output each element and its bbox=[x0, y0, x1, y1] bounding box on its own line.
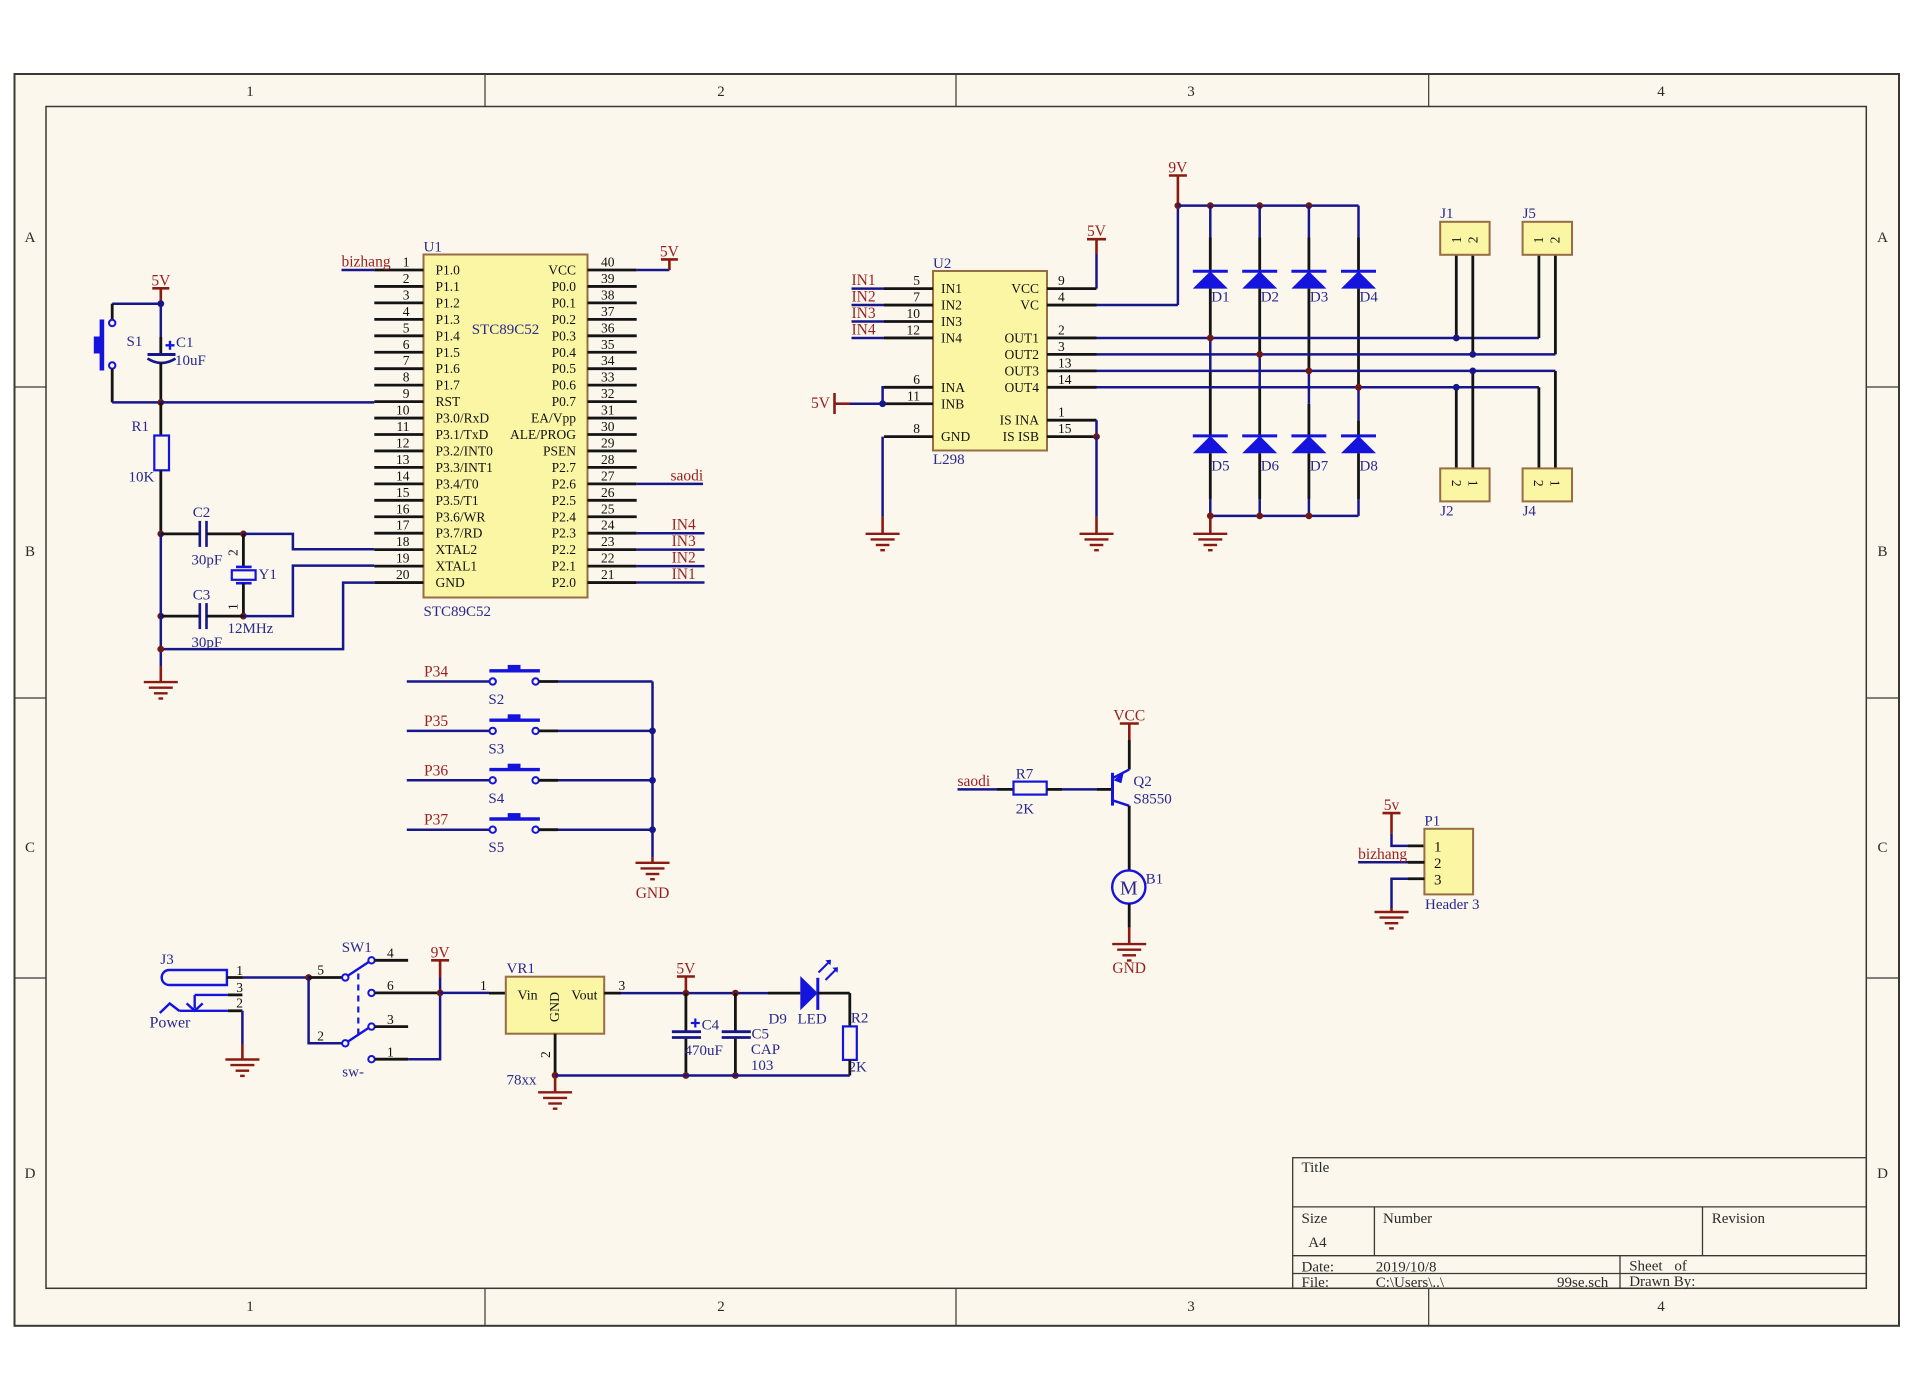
net label saodi at U1 pin 27 bbox=[637, 483, 703, 486]
wire J1 pin1 drop bbox=[1455, 255, 1458, 338]
svg-text:P34: P34 bbox=[424, 664, 448, 681]
svg-text:9: 9 bbox=[403, 386, 410, 401]
node: C4 junction bbox=[683, 990, 690, 997]
svg-text:STC89C52: STC89C52 bbox=[472, 322, 540, 338]
svg-text:10: 10 bbox=[907, 306, 921, 321]
push button S2 bbox=[490, 678, 496, 684]
wire junction to INA bbox=[883, 387, 884, 403]
U1 pin 17 (P3.7/RD) bbox=[374, 532, 423, 535]
svg-text:2: 2 bbox=[1531, 480, 1546, 487]
svg-text:P0.7: P0.7 bbox=[552, 394, 577, 409]
svg-text:9: 9 bbox=[1058, 273, 1065, 288]
svg-text:26: 26 bbox=[601, 485, 615, 500]
node: bottom rail junction bbox=[1256, 513, 1263, 520]
title block bbox=[1293, 1158, 1867, 1289]
svg-text:1: 1 bbox=[1449, 237, 1464, 244]
svg-text:99se.sch: 99se.sch bbox=[1557, 1275, 1609, 1291]
svg-text:2: 2 bbox=[538, 1051, 553, 1058]
wire J5 pin 2 drop bbox=[1554, 255, 1557, 354]
svg-text:C: C bbox=[25, 840, 35, 856]
svg-text:P1.6: P1.6 bbox=[436, 361, 461, 376]
svg-text:A: A bbox=[1877, 230, 1888, 246]
svg-text:14: 14 bbox=[396, 468, 410, 483]
node: C5 junction bbox=[732, 990, 739, 997]
node: J1.1 junction bbox=[1453, 335, 1460, 342]
ground below U2 IS pins bbox=[1095, 517, 1098, 534]
wire OUT1 to J1/J5 bbox=[1097, 337, 1539, 340]
wire J3 pin1 to SW1 bbox=[243, 976, 309, 979]
U1 pin 35 (P0.4) bbox=[588, 351, 637, 354]
svg-text:R2: R2 bbox=[851, 1011, 869, 1027]
svg-text:5V: 5V bbox=[1087, 223, 1107, 240]
svg-text:Y1: Y1 bbox=[259, 567, 277, 583]
svg-text:P0.2: P0.2 bbox=[552, 312, 576, 327]
U1 pin 39 (P0.0) bbox=[588, 285, 637, 288]
wire S5 to GND rail bbox=[539, 828, 558, 831]
svg-text:1: 1 bbox=[1531, 237, 1546, 244]
svg-text:5V: 5V bbox=[660, 243, 680, 260]
U1 pin 8 (P1.7) bbox=[374, 384, 423, 387]
wire bottom return rail bbox=[555, 1074, 850, 1077]
svg-text:OUT3: OUT3 bbox=[1005, 363, 1040, 378]
wire U2 IS INA loop bbox=[1095, 420, 1098, 436]
resistor R1 10K bbox=[159, 402, 162, 435]
U2 pin 6 (INA) bbox=[884, 386, 933, 389]
svg-text:Sheet: Sheet bbox=[1629, 1259, 1663, 1275]
net labels IN4-IN1 at U1 pins 24-21 bbox=[637, 532, 705, 535]
svg-text:4: 4 bbox=[387, 946, 394, 961]
LED D9 bbox=[768, 992, 800, 995]
U2 pin 15 (IS ISB) bbox=[1047, 435, 1097, 438]
op-amp U1 body (STC89C52) bbox=[424, 255, 588, 598]
svg-text:C1: C1 bbox=[176, 335, 194, 351]
node: S5 rail junction bbox=[649, 826, 656, 833]
svg-text:P37: P37 bbox=[424, 812, 448, 829]
svg-text:D6: D6 bbox=[1261, 459, 1280, 475]
svg-text:GND: GND bbox=[436, 575, 465, 590]
svg-text:30: 30 bbox=[601, 419, 615, 434]
node: bottom rail junction bbox=[1207, 513, 1214, 520]
svg-text:A4: A4 bbox=[1308, 1235, 1327, 1251]
power 5V at U2 VCC pin 9 bbox=[1087, 238, 1106, 241]
svg-text:R1: R1 bbox=[132, 419, 150, 435]
U1 pin 2 (P1.1) bbox=[374, 285, 423, 288]
power 5V above C4 bbox=[677, 975, 695, 978]
svg-text:P0.4: P0.4 bbox=[552, 345, 577, 360]
svg-text:P2.3: P2.3 bbox=[552, 526, 577, 541]
svg-text:Date:: Date: bbox=[1302, 1260, 1334, 1276]
J3 pin 3 contact bbox=[195, 994, 228, 996]
svg-text:19: 19 bbox=[396, 551, 410, 566]
node: Y1 bottom junction bbox=[240, 613, 247, 620]
svg-text:LED: LED bbox=[798, 1012, 827, 1028]
svg-text:Revision: Revision bbox=[1712, 1211, 1766, 1227]
U2 pin 5 (IN1) bbox=[884, 287, 933, 290]
svg-text:P0.6: P0.6 bbox=[552, 378, 577, 393]
U1 pin 20 (GND) bbox=[374, 581, 423, 584]
ground below C3 bbox=[160, 667, 163, 683]
net label saodi wire to R7 bbox=[958, 788, 998, 791]
wire RST to U1 pin 9 bbox=[161, 401, 374, 404]
svg-text:D9: D9 bbox=[769, 1012, 787, 1028]
wire J3 pin2 to ground bbox=[241, 1011, 244, 1044]
diode D4 bbox=[1357, 206, 1360, 238]
wire OUT2 to J1/J5 bbox=[1097, 353, 1556, 356]
svg-text:28: 28 bbox=[601, 452, 615, 467]
svg-text:1: 1 bbox=[1465, 480, 1480, 487]
svg-text:4: 4 bbox=[1058, 290, 1065, 305]
svg-text:1: 1 bbox=[246, 1299, 254, 1315]
svg-text:15: 15 bbox=[1058, 421, 1072, 436]
capacitor C5 103 bbox=[734, 993, 737, 1030]
svg-text:10: 10 bbox=[396, 403, 410, 418]
svg-text:33: 33 bbox=[601, 370, 615, 385]
U1 pin 27 (P2.6) bbox=[588, 482, 637, 485]
U1 pin 12 (P3.2/INT0) bbox=[374, 450, 423, 453]
svg-text:IN2: IN2 bbox=[672, 550, 696, 567]
svg-text:D7: D7 bbox=[1310, 459, 1329, 475]
U1 pin 1 (P1.0) bbox=[374, 269, 423, 272]
svg-text:38: 38 bbox=[601, 287, 615, 302]
wire IS junction to ground bbox=[1095, 437, 1098, 517]
svg-text:29: 29 bbox=[601, 435, 615, 450]
U1 pin 4 (P1.3) bbox=[374, 318, 423, 321]
svg-text:C5: C5 bbox=[752, 1027, 770, 1043]
U2 pin 13 (OUT3) bbox=[1047, 369, 1097, 372]
J3 tip switch chevron bbox=[160, 1004, 180, 1014]
wire S2 to GND rail bbox=[539, 680, 558, 683]
node: D2/OUT2 junction bbox=[1256, 351, 1263, 358]
svg-text:27: 27 bbox=[601, 468, 615, 483]
ground below buttons bbox=[651, 857, 654, 863]
diode D3 bbox=[1308, 206, 1311, 238]
svg-text:22: 22 bbox=[601, 551, 615, 566]
U1 pin 26 (P2.5) bbox=[588, 499, 637, 502]
svg-text:S5: S5 bbox=[488, 840, 504, 856]
svg-text:2K: 2K bbox=[1016, 802, 1035, 818]
svg-text:bizhang: bizhang bbox=[342, 254, 391, 271]
node: S4 rail junction bbox=[649, 777, 656, 784]
svg-text:CAP: CAP bbox=[751, 1042, 780, 1058]
svg-text:32: 32 bbox=[601, 386, 615, 401]
svg-text:2: 2 bbox=[717, 1299, 725, 1315]
net label P36 wire bbox=[407, 779, 490, 782]
svg-text:saodi: saodi bbox=[958, 773, 991, 790]
U1 pin 32 (P0.7) bbox=[588, 400, 637, 403]
wire J5 pin 1 drop bbox=[1538, 255, 1541, 338]
capacitor C1 bbox=[160, 304, 163, 337]
U1 pin 29 (PSEN) bbox=[588, 450, 637, 453]
svg-text:37: 37 bbox=[601, 304, 615, 319]
svg-text:2: 2 bbox=[226, 549, 241, 556]
node: IS junction bbox=[1093, 433, 1100, 440]
VR1 pin 3 Vout bbox=[604, 992, 621, 995]
ground below U2 GND bbox=[881, 517, 884, 534]
power 5V at U1 pin 40 bbox=[637, 269, 670, 272]
svg-text:12: 12 bbox=[396, 435, 410, 450]
svg-text:9V: 9V bbox=[1168, 160, 1188, 177]
U1 pin 6 (P1.5) bbox=[374, 351, 423, 354]
wire 5V junction to S1 top bbox=[112, 302, 161, 305]
diode D6 bbox=[1258, 354, 1261, 387]
svg-text:GND: GND bbox=[548, 992, 563, 1022]
push button S3 bbox=[490, 728, 496, 734]
U2 pin 10 (IN3) bbox=[884, 320, 933, 323]
svg-text:A: A bbox=[25, 230, 36, 246]
wire SW1 pin1 to 9V riser bbox=[408, 993, 440, 1059]
svg-text:J1: J1 bbox=[1440, 206, 1453, 222]
power 9V above SW1 bbox=[431, 959, 449, 962]
U2 pin 4 (VC) bbox=[1047, 304, 1097, 307]
wire J4 pin 2 rise bbox=[1538, 387, 1541, 468]
svg-text:5: 5 bbox=[913, 273, 920, 288]
wire J2 pin2 rise bbox=[1455, 387, 1458, 468]
svg-text:12MHz: 12MHz bbox=[228, 621, 274, 637]
U1 pin 10 (P3.0/RxD) bbox=[374, 417, 423, 420]
svg-text:1: 1 bbox=[1434, 839, 1442, 855]
svg-text:1: 1 bbox=[403, 255, 410, 270]
svg-text:10K: 10K bbox=[129, 470, 155, 486]
wire Q2 collector to motor bbox=[1128, 806, 1131, 871]
wire LED to R2 bbox=[818, 992, 850, 995]
node: C4 bottom junction bbox=[683, 1072, 690, 1079]
svg-text:S3: S3 bbox=[488, 741, 504, 757]
connector P1 body bbox=[1424, 829, 1473, 895]
net label bizhang at U1 pin 1 bbox=[342, 269, 375, 272]
wire Y1 top to XTAL2 (pin 18) bbox=[243, 534, 374, 549]
svg-text:2K: 2K bbox=[849, 1060, 868, 1076]
svg-text:File:: File: bbox=[1302, 1275, 1330, 1291]
svg-text:GND: GND bbox=[1112, 960, 1146, 977]
svg-text:1: 1 bbox=[480, 978, 487, 993]
svg-text:2: 2 bbox=[1434, 856, 1442, 872]
svg-text:9V: 9V bbox=[431, 944, 451, 961]
wire S1 bottom to RST node bbox=[111, 369, 114, 403]
connector J5 bbox=[1523, 222, 1572, 255]
svg-text:P3.2/INT0: P3.2/INT0 bbox=[436, 443, 494, 458]
svg-text:D: D bbox=[1877, 1166, 1888, 1182]
ground below diode rail bbox=[1209, 516, 1212, 534]
svg-text:P1: P1 bbox=[1424, 814, 1440, 830]
svg-text:P0.5: P0.5 bbox=[552, 361, 577, 376]
svg-text:7: 7 bbox=[913, 290, 920, 305]
connector J1 bbox=[1440, 222, 1489, 255]
wire J4 pin 1 rise bbox=[1554, 371, 1557, 469]
svg-text:bizhang: bizhang bbox=[1358, 846, 1407, 863]
U1 pin 40 (VCC) bbox=[588, 269, 637, 272]
diode D2 bbox=[1258, 206, 1261, 238]
svg-text:Header 3: Header 3 bbox=[1425, 897, 1480, 913]
node: J1.2 junction bbox=[1469, 351, 1476, 358]
svg-text:P2.1: P2.1 bbox=[552, 559, 576, 574]
svg-text:12: 12 bbox=[907, 322, 921, 337]
wire S4 to GND rail bbox=[539, 779, 558, 782]
svg-text:STC89C52: STC89C52 bbox=[424, 604, 492, 620]
svg-text:IN3: IN3 bbox=[852, 305, 876, 322]
svg-text:of: of bbox=[1674, 1259, 1687, 1275]
node: 9V/SW1 junction bbox=[437, 990, 444, 997]
svg-text:1: 1 bbox=[246, 84, 254, 100]
svg-text:3: 3 bbox=[1058, 339, 1065, 354]
svg-text:INA: INA bbox=[941, 380, 965, 395]
svg-text:14: 14 bbox=[1058, 372, 1072, 387]
ground below VR1 bbox=[554, 1075, 557, 1092]
svg-text:2: 2 bbox=[1449, 480, 1464, 487]
svg-text:Title: Title bbox=[1302, 1160, 1330, 1176]
svg-text:OUT4: OUT4 bbox=[1005, 380, 1040, 395]
svg-text:J5: J5 bbox=[1523, 206, 1536, 222]
wire OUT3 to J2/J4 bbox=[1097, 370, 1556, 373]
node: D4/OUT4 junction bbox=[1355, 384, 1362, 391]
U2 pin 11 (INB) bbox=[884, 402, 933, 405]
svg-text:8: 8 bbox=[913, 421, 920, 436]
svg-text:VCC: VCC bbox=[1011, 281, 1039, 296]
svg-text:3: 3 bbox=[387, 1012, 394, 1027]
wire diode bottom rail bbox=[1210, 515, 1358, 518]
svg-text:C4: C4 bbox=[702, 1018, 720, 1034]
push button S4 bbox=[490, 777, 496, 783]
svg-text:5: 5 bbox=[317, 963, 324, 978]
svg-text:D3: D3 bbox=[1310, 290, 1328, 306]
node: top rail junction D2 bbox=[1256, 202, 1263, 209]
svg-text:RST: RST bbox=[436, 394, 462, 409]
svg-text:5V: 5V bbox=[151, 272, 171, 289]
svg-text:P2.6: P2.6 bbox=[552, 476, 577, 491]
node: RST junction bbox=[157, 399, 164, 406]
svg-text:6: 6 bbox=[387, 978, 394, 993]
ground below motor B1 bbox=[1128, 928, 1131, 945]
svg-text:IN1: IN1 bbox=[941, 281, 962, 296]
ground below P1 bbox=[1390, 908, 1393, 912]
U1 pin 36 (P0.3) bbox=[588, 334, 637, 337]
svg-text:B: B bbox=[25, 544, 35, 560]
svg-text:sw-: sw- bbox=[342, 1065, 364, 1081]
node: Y1 top junction bbox=[240, 531, 247, 538]
svg-text:4: 4 bbox=[1657, 84, 1665, 100]
svg-text:P3.1/TxD: P3.1/TxD bbox=[436, 427, 489, 442]
svg-text:P1.2: P1.2 bbox=[436, 295, 460, 310]
U2 pin 8 (GND) bbox=[884, 435, 933, 438]
svg-text:2: 2 bbox=[317, 1029, 324, 1044]
svg-text:24: 24 bbox=[601, 518, 615, 533]
svg-text:GND: GND bbox=[636, 885, 670, 902]
wire S3 to GND rail bbox=[539, 730, 558, 733]
svg-text:P2.7: P2.7 bbox=[552, 460, 577, 475]
node: J3/SW1 junction bbox=[305, 974, 312, 981]
wire J2 pin1 rise bbox=[1471, 371, 1474, 469]
svg-text:D: D bbox=[25, 1166, 36, 1182]
resistor R2 2K bbox=[843, 1026, 857, 1060]
svg-text:1: 1 bbox=[236, 963, 243, 978]
node: INA/INB junction bbox=[879, 400, 886, 407]
U1 pin 38 (P0.1) bbox=[588, 301, 637, 304]
svg-text:IN2: IN2 bbox=[941, 298, 962, 313]
svg-text:R7: R7 bbox=[1016, 767, 1034, 783]
svg-text:IN1: IN1 bbox=[852, 272, 876, 289]
svg-text:D2: D2 bbox=[1261, 290, 1279, 306]
U2 pin 14 (OUT4) bbox=[1047, 386, 1097, 389]
wire U1 GND (pin 20) return bbox=[161, 583, 374, 650]
svg-text:P36: P36 bbox=[424, 762, 448, 779]
svg-text:P3.3/INT1: P3.3/INT1 bbox=[436, 460, 493, 475]
svg-text:34: 34 bbox=[601, 353, 615, 368]
svg-text:39: 39 bbox=[601, 271, 615, 286]
wire R1/C2/C3 vertical bus bbox=[160, 534, 163, 667]
capacitor C3 30pF bbox=[161, 615, 200, 618]
node: top rail junction D3 bbox=[1306, 202, 1313, 209]
svg-text:5: 5 bbox=[403, 320, 410, 335]
svg-text:5V: 5V bbox=[676, 961, 696, 978]
svg-text:P2.2: P2.2 bbox=[552, 542, 576, 557]
wire 9V junction to VR1 Vin bbox=[440, 992, 489, 995]
svg-text:1: 1 bbox=[1548, 480, 1563, 487]
svg-text:P3.4/T0: P3.4/T0 bbox=[436, 476, 479, 491]
svg-text:D1: D1 bbox=[1211, 290, 1229, 306]
svg-text:Number: Number bbox=[1383, 1211, 1432, 1227]
diode D5 bbox=[1209, 338, 1212, 371]
svg-text:4: 4 bbox=[403, 304, 410, 319]
svg-text:35: 35 bbox=[601, 337, 615, 352]
svg-text:EA/Vpp: EA/Vpp bbox=[531, 411, 576, 426]
svg-text:GND: GND bbox=[941, 429, 970, 444]
svg-text:3: 3 bbox=[236, 980, 243, 995]
U1 pin 5 (P1.4) bbox=[374, 334, 423, 337]
svg-text:25: 25 bbox=[601, 501, 615, 516]
svg-text:Vin: Vin bbox=[518, 989, 538, 1004]
wire J1 pin2 drop bbox=[1471, 255, 1474, 354]
node: 9V rail junction bbox=[1175, 202, 1182, 209]
svg-text:P1.0: P1.0 bbox=[436, 263, 461, 278]
U1 pin 15 (P3.5/T1) bbox=[374, 499, 423, 502]
svg-text:P3.6/WR: P3.6/WR bbox=[436, 509, 486, 524]
svg-text:23: 23 bbox=[601, 534, 615, 549]
transistor Q2 S8550 bbox=[1111, 773, 1114, 806]
power 5v above P1 bbox=[1383, 812, 1401, 815]
svg-text:P1.7: P1.7 bbox=[436, 378, 461, 393]
U1 pin 7 (P1.6) bbox=[374, 367, 423, 370]
svg-text:Size: Size bbox=[1302, 1211, 1328, 1227]
wire U2 VC to 9V riser bbox=[1097, 304, 1178, 307]
svg-text:IS ISB: IS ISB bbox=[1003, 429, 1039, 444]
svg-text:VC: VC bbox=[1020, 298, 1039, 313]
svg-text:SW1: SW1 bbox=[342, 940, 372, 956]
U1 pin 16 (P3.6/WR) bbox=[374, 515, 423, 518]
svg-text:VCC: VCC bbox=[1113, 708, 1145, 725]
svg-text:J3: J3 bbox=[160, 952, 173, 968]
svg-text:13: 13 bbox=[1058, 355, 1072, 370]
svg-text:3: 3 bbox=[1187, 1299, 1195, 1315]
node: C3 left junction bbox=[157, 613, 164, 620]
svg-text:20: 20 bbox=[396, 567, 410, 582]
svg-text:18: 18 bbox=[396, 534, 410, 549]
svg-text:6: 6 bbox=[403, 337, 410, 352]
net labels IN1-IN4 at U2 bbox=[852, 287, 885, 290]
svg-text:P3.0/RxD: P3.0/RxD bbox=[436, 411, 490, 426]
svg-text:ALE/PROG: ALE/PROG bbox=[510, 427, 576, 442]
node: GND rail junction bbox=[157, 646, 164, 653]
svg-text:P2.0: P2.0 bbox=[552, 575, 577, 590]
U1 pin 30 (ALE/PROG) bbox=[588, 433, 637, 436]
U1 pin 18 (XTAL2) bbox=[374, 548, 423, 551]
wire motor to ground bbox=[1128, 904, 1131, 928]
svg-text:P2.4: P2.4 bbox=[552, 509, 577, 524]
svg-text:INB: INB bbox=[941, 396, 964, 411]
switch S1 bbox=[109, 320, 115, 326]
svg-text:IN4: IN4 bbox=[672, 517, 696, 534]
svg-text:2019/10/8: 2019/10/8 bbox=[1376, 1260, 1437, 1276]
wire OUT4 to J2/J4 bbox=[1097, 386, 1539, 389]
svg-text:13: 13 bbox=[396, 452, 410, 467]
